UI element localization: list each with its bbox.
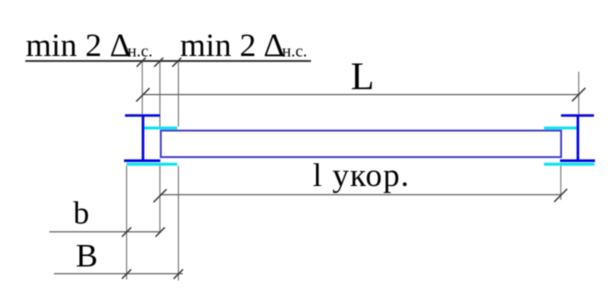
svg-text:н.с.: н.с. [128,41,153,60]
svg-text:l укор.: l укор. [313,158,410,194]
svg-text:b: b [73,195,89,231]
svg-text:B: B [76,238,98,274]
svg-text:min 2: min 2 [180,28,256,64]
svg-text:min 2: min 2 [26,28,102,64]
svg-text:н.с.: н.с. [282,41,307,60]
svg-text:L: L [351,55,375,98]
